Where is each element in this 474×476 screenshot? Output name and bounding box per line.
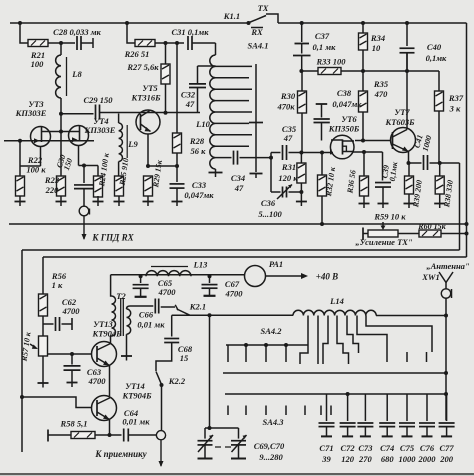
svg-text:„Антенна": „Антенна" bbox=[426, 261, 470, 271]
resistor R32 bbox=[318, 153, 327, 225]
label XW1 bbox=[421, 272, 439, 282]
wire VT14 emitter bbox=[108, 420, 112, 438]
svg-text:R28: R28 bbox=[189, 136, 205, 146]
arrow to receiver bbox=[159, 440, 164, 467]
label R24 bbox=[97, 152, 111, 188]
label R30 bbox=[276, 91, 295, 112]
svg-text:L9: L9 bbox=[127, 139, 138, 149]
wire antenna rail bbox=[0, 298, 474, 475]
wire right rail bbox=[466, 23, 468, 257]
capacitor C67 bbox=[202, 276, 218, 296]
svg-text:С77: С77 bbox=[440, 443, 455, 453]
capacitor C29 bbox=[96, 105, 100, 120]
svg-text:С29 150: С29 150 bbox=[83, 95, 113, 105]
svg-text:4700: 4700 bbox=[62, 306, 81, 316]
resistor R27 bbox=[161, 43, 170, 113]
label R35 bbox=[373, 79, 389, 99]
transistor VT3 bbox=[31, 127, 51, 167]
resistor R22 bbox=[16, 139, 25, 196]
capacitor C34 bbox=[216, 151, 272, 165]
capacitor C36 variable bbox=[271, 185, 301, 200]
label R56 bbox=[51, 271, 67, 290]
wire R21 to C28 bbox=[48, 41, 75, 45]
svg-text:+40 В: +40 В bbox=[316, 272, 338, 282]
svg-text:С36: С36 bbox=[261, 198, 276, 208]
ground R25 bbox=[114, 196, 125, 206]
wire VT14 base bbox=[20, 395, 91, 408]
svg-text:2000: 2000 bbox=[418, 454, 437, 464]
svg-text:SА4.2: SА4.2 bbox=[260, 326, 282, 336]
svg-text:С34: С34 bbox=[231, 173, 245, 183]
wire bias row bbox=[299, 69, 439, 73]
capacitor С77 bbox=[439, 394, 455, 436]
svg-text:С75: С75 bbox=[400, 443, 415, 453]
capacitor С75 bbox=[399, 394, 415, 436]
label R38 bbox=[442, 179, 455, 208]
label PA1 bbox=[269, 259, 283, 269]
resistor R39 bbox=[405, 163, 414, 204]
wire drain link bbox=[42, 114, 80, 176]
label VT3 bbox=[15, 99, 47, 118]
svg-text:1 к: 1 к bbox=[52, 280, 63, 290]
resistor R59 trimmer bbox=[363, 222, 398, 240]
svg-text:R60 15к: R60 15к bbox=[417, 222, 446, 231]
resistor R25 bbox=[115, 162, 124, 197]
label C67 bbox=[225, 279, 244, 299]
svg-text:К приемнику: К приемнику bbox=[94, 449, 147, 459]
label C40 bbox=[426, 42, 447, 63]
transistor VT6 bbox=[330, 135, 354, 159]
resistor R35 bbox=[359, 71, 368, 141]
label SA4.3 bbox=[262, 417, 284, 427]
label L10 bbox=[195, 119, 210, 129]
label SA4.2 bbox=[260, 326, 282, 336]
transistor VT5 bbox=[136, 110, 160, 166]
switch SA4.3 contacts bbox=[228, 406, 331, 416]
wire VT3 source bbox=[20, 165, 41, 167]
svg-text:120: 120 bbox=[341, 454, 355, 464]
svg-text:R37: R37 bbox=[448, 93, 464, 103]
wire lower bus1 bbox=[223, 371, 448, 375]
svg-text:С76: С76 bbox=[420, 443, 435, 453]
svg-text:0,1 мк: 0,1 мк bbox=[313, 42, 337, 52]
svg-text:R31: R31 bbox=[281, 162, 296, 172]
wire lower bus2 bbox=[225, 392, 448, 396]
capacitor C28 bbox=[77, 36, 81, 50]
ground R38 bbox=[434, 204, 445, 209]
capacitor C33 bbox=[170, 166, 185, 202]
wire C29 to VT5 bbox=[100, 111, 201, 115]
wire top supply rail bbox=[10, 21, 467, 25]
capacitor C41 bbox=[424, 155, 428, 170]
label R27 bbox=[126, 62, 159, 72]
label VT7 bbox=[384, 107, 415, 127]
wire plus40 branch bbox=[110, 275, 113, 296]
svg-text:С33: С33 bbox=[192, 180, 207, 190]
svg-text:4700: 4700 bbox=[88, 376, 107, 386]
wire TX out bbox=[459, 163, 461, 250]
inductor L8 bbox=[56, 43, 67, 98]
resistor R38 bbox=[435, 163, 444, 204]
wire R26 to C31 bbox=[155, 41, 184, 45]
switch SA4.1 rotor bbox=[249, 64, 263, 172]
ground R39 bbox=[404, 204, 415, 209]
label K2.1 bbox=[189, 302, 206, 312]
wire VT13 collector bbox=[111, 336, 112, 344]
svg-text:680: 680 bbox=[381, 454, 395, 464]
resistor R26 bbox=[135, 40, 155, 47]
svg-text:R34: R34 bbox=[370, 33, 385, 43]
wire VT7 emitter bbox=[407, 152, 411, 166]
svg-text:С32: С32 bbox=[181, 90, 196, 100]
label R25 bbox=[118, 157, 131, 186]
svg-text:С38: С38 bbox=[337, 88, 352, 98]
label C65 bbox=[158, 278, 177, 297]
label R39 bbox=[411, 179, 424, 208]
svg-text:УТ14: УТ14 bbox=[125, 381, 145, 391]
capacitor C30 bbox=[74, 166, 94, 207]
svg-text:270: 270 bbox=[358, 454, 373, 464]
svg-text:3 к: 3 к bbox=[449, 104, 461, 114]
transistor VT14 bbox=[92, 396, 117, 421]
svg-text:Т2: Т2 bbox=[116, 291, 126, 301]
label k priemniku bbox=[94, 449, 147, 459]
svg-text:470к: 470к bbox=[276, 102, 295, 112]
label antenna bbox=[426, 261, 470, 271]
resistor R30 bbox=[298, 71, 307, 153]
wire emitter row bbox=[146, 164, 179, 168]
label C32 bbox=[181, 90, 196, 110]
svg-text:L8: L8 bbox=[71, 69, 82, 79]
ground T2 bbox=[121, 356, 132, 361]
capacitor C31 bbox=[188, 36, 192, 50]
svg-text:С67: С67 bbox=[225, 279, 240, 289]
inductor L10 bbox=[210, 43, 216, 169]
label R60 bbox=[417, 222, 446, 231]
label VT4 bbox=[84, 116, 116, 135]
antenna XW1 bbox=[439, 272, 453, 289]
label R36 bbox=[345, 169, 357, 194]
label R26 bbox=[124, 49, 150, 59]
inductor L13 bbox=[146, 267, 191, 277]
arrow to GPD bbox=[82, 216, 87, 240]
wire L14 taps bbox=[300, 316, 432, 365]
label plus40 bbox=[316, 272, 338, 282]
svg-text:С72: С72 bbox=[341, 443, 356, 453]
svg-text:L10: L10 bbox=[195, 119, 210, 129]
ground R36 bbox=[359, 204, 370, 209]
inductor L14 bbox=[293, 310, 376, 315]
wire plus40 bbox=[111, 274, 245, 278]
svg-text:ТХ: ТХ bbox=[258, 3, 269, 13]
label C64 bbox=[122, 408, 150, 427]
label L14 bbox=[329, 296, 344, 306]
svg-text:47: 47 bbox=[283, 133, 293, 143]
label R58 bbox=[60, 419, 88, 429]
label C68 bbox=[178, 344, 193, 363]
ground R24 bbox=[93, 196, 104, 206]
label R33 bbox=[315, 57, 346, 67]
label R37 bbox=[448, 93, 464, 114]
svg-text:КП303Е: КП303Е bbox=[84, 125, 116, 135]
svg-text:КТ316Б: КТ316Б bbox=[130, 93, 161, 103]
label C38 bbox=[332, 88, 362, 109]
resistor R29 bbox=[144, 176, 153, 196]
label K1.1 bbox=[223, 11, 240, 21]
connector XW1 bbox=[441, 289, 451, 298]
resistor R21 bbox=[28, 40, 48, 47]
label R28 bbox=[189, 136, 206, 156]
label TX bbox=[258, 3, 269, 13]
label С72 bbox=[341, 443, 356, 464]
wire R60 out bbox=[43, 232, 469, 258]
ground L10 bbox=[209, 169, 223, 177]
label R31 bbox=[278, 162, 298, 183]
svg-text:220: 220 bbox=[45, 185, 60, 195]
capacitor C69 bbox=[198, 428, 214, 459]
svg-text:10: 10 bbox=[372, 43, 381, 53]
svg-text:РА1: РА1 bbox=[269, 259, 283, 269]
svg-text:0,047мк: 0,047мк bbox=[184, 190, 214, 200]
label R57 bbox=[19, 331, 32, 363]
terminal K2.2 out bbox=[156, 431, 165, 440]
capacitor C32 bbox=[189, 66, 216, 113]
ground R31 bbox=[296, 202, 307, 207]
svg-text:R26 51: R26 51 bbox=[124, 49, 150, 59]
svg-text:ХW1: ХW1 bbox=[421, 272, 439, 282]
resistor R28 bbox=[173, 43, 182, 166]
svg-text:470: 470 bbox=[374, 89, 389, 99]
arrow plus40 bbox=[266, 273, 309, 279]
capacitor C38 bbox=[314, 104, 330, 141]
wire C35 node bbox=[269, 153, 273, 193]
svg-text:С66: С66 bbox=[139, 310, 154, 320]
svg-text:КТ603Б: КТ603Б bbox=[384, 117, 415, 127]
wire VT6 source bbox=[352, 150, 383, 154]
svg-text:R22: R22 bbox=[27, 155, 43, 165]
wire L8 to C29 bbox=[59, 98, 94, 116]
capacitor C65 bbox=[133, 276, 149, 297]
resistor R33 bbox=[318, 68, 341, 75]
svg-text:С69,С70: С69,С70 bbox=[254, 441, 285, 451]
svg-text:0,047мк: 0,047мк bbox=[332, 99, 362, 109]
label C39 bbox=[380, 160, 399, 182]
svg-text:100: 100 bbox=[31, 59, 45, 69]
transistor VT13 bbox=[92, 342, 117, 367]
capacitor C66 bbox=[130, 299, 175, 314]
label C63 bbox=[87, 367, 106, 386]
label T2 bbox=[116, 291, 126, 301]
label С74 bbox=[380, 443, 394, 464]
svg-text:УТ6: УТ6 bbox=[341, 114, 357, 124]
ground C63 bbox=[67, 383, 78, 388]
wire VT6 drain bbox=[355, 139, 391, 143]
svg-text:К ГПД RX: К ГПД RX bbox=[91, 233, 134, 243]
label C35 bbox=[282, 124, 297, 143]
svg-text:5...100: 5...100 bbox=[258, 209, 282, 219]
wire VT13 base bbox=[48, 352, 92, 356]
label K2.2 bbox=[168, 376, 186, 386]
svg-text:К2.1: К2.1 bbox=[189, 302, 206, 312]
label С73 bbox=[358, 443, 373, 464]
label C31 bbox=[171, 27, 209, 37]
ground SA4.1 bbox=[250, 174, 263, 179]
resistor R23 bbox=[57, 176, 66, 196]
svg-text:КП303Е: КП303Е bbox=[15, 108, 47, 118]
svg-text:КТ904Б: КТ904Б bbox=[121, 391, 152, 401]
svg-text:С31 0,1мк: С31 0,1мк bbox=[171, 27, 209, 37]
svg-text:С71: С71 bbox=[319, 443, 333, 453]
capacitor С76 bbox=[419, 394, 435, 436]
capacitor С74 bbox=[379, 394, 395, 436]
switch K1.1 bbox=[247, 14, 279, 28]
ground C39 bbox=[378, 204, 389, 209]
svg-text:R33 100: R33 100 bbox=[315, 57, 346, 67]
svg-text:С28 0,033 мк: С28 0,033 мк bbox=[53, 27, 101, 37]
label C37 bbox=[313, 31, 337, 52]
wire K2.1 out bbox=[172, 313, 293, 317]
svg-text:R23: R23 bbox=[44, 175, 60, 185]
svg-text:УТ7: УТ7 bbox=[394, 107, 410, 117]
resistor R34 bbox=[359, 23, 368, 71]
svg-text:0,1мк: 0,1мк bbox=[426, 53, 447, 63]
wire gate line bbox=[4, 140, 94, 142]
svg-text:R30: R30 bbox=[280, 91, 296, 101]
capacitor С73 bbox=[357, 394, 373, 436]
label VT5 bbox=[130, 83, 161, 103]
label C41 bbox=[413, 134, 434, 153]
svg-text:39: 39 bbox=[321, 454, 331, 464]
capacitor C62 bbox=[43, 316, 72, 331]
ground C33 bbox=[172, 202, 183, 207]
label C33 bbox=[184, 180, 214, 200]
inductor L9 bbox=[119, 114, 128, 162]
wire bias feed bbox=[42, 257, 44, 294]
label C29 bbox=[83, 95, 113, 105]
label L8 bbox=[71, 69, 82, 79]
label C36 bbox=[258, 198, 282, 219]
wire L10 taps bbox=[216, 66, 253, 146]
label С76 bbox=[418, 443, 437, 464]
ground R22 bbox=[15, 196, 26, 206]
label C30 bbox=[55, 153, 74, 171]
svg-text:УТ5: УТ5 bbox=[142, 83, 158, 93]
svg-text:0,01 мк: 0,01 мк bbox=[122, 417, 150, 427]
meter PA1 bbox=[245, 266, 266, 287]
svg-text:1000: 1000 bbox=[399, 454, 417, 464]
label С71 bbox=[319, 443, 333, 464]
resistor R37 bbox=[435, 71, 444, 163]
wire C28 stub bbox=[81, 38, 93, 48]
svg-text:К1.1: К1.1 bbox=[223, 11, 240, 21]
capacitor C68 bbox=[156, 315, 179, 371]
wire L14 out bbox=[376, 314, 448, 318]
svg-text:4700: 4700 bbox=[158, 287, 177, 297]
svg-text:„Усиление ТХ": „Усиление ТХ" bbox=[355, 237, 413, 247]
wire K2.1 down bbox=[208, 315, 212, 430]
capacitor С72 bbox=[340, 394, 356, 436]
label K GPD RX bbox=[91, 233, 134, 243]
label usilenie bbox=[355, 237, 413, 247]
wire emitter out bbox=[409, 161, 460, 165]
resistor R58 bbox=[48, 430, 122, 442]
capacitor C39 bbox=[375, 152, 391, 204]
svg-text:КТ904Б: КТ904Б bbox=[91, 329, 122, 339]
svg-text:КП350Б: КП350Б bbox=[328, 124, 360, 134]
transformer T2 bbox=[112, 296, 131, 356]
label VT13 bbox=[91, 319, 122, 339]
svg-text:RХ: RХ bbox=[250, 27, 263, 37]
label R59 bbox=[373, 212, 406, 222]
wire frame outer bbox=[22, 250, 460, 452]
wire gate1 bbox=[301, 151, 333, 155]
label R23 bbox=[44, 175, 60, 195]
capacitor C37 bbox=[293, 23, 311, 71]
label VT6 bbox=[328, 114, 360, 134]
transistor VT7 bbox=[391, 128, 416, 153]
capacitor C40 bbox=[400, 23, 415, 71]
label R29 bbox=[151, 159, 164, 189]
label R32 bbox=[324, 166, 337, 198]
capacitor C35 bbox=[271, 145, 301, 160]
wire VT13 emitter bbox=[109, 366, 111, 397]
svg-text:SА4.3: SА4.3 bbox=[262, 417, 284, 427]
wire to R26 bbox=[127, 23, 135, 43]
resistor R36 bbox=[360, 152, 369, 204]
svg-text:200: 200 bbox=[439, 454, 454, 464]
svg-text:С73: С73 bbox=[358, 443, 373, 453]
label С77 bbox=[439, 443, 454, 464]
label C28 bbox=[53, 27, 101, 37]
wire VT7 collector bbox=[406, 53, 408, 130]
label C66 bbox=[137, 310, 165, 330]
resistor R56 bbox=[39, 294, 48, 316]
capacitor С71 bbox=[319, 394, 335, 436]
switch K2.1 bbox=[175, 305, 190, 315]
svg-text:К2.2: К2.2 bbox=[168, 376, 186, 386]
svg-text:0,01 мк: 0,01 мк bbox=[137, 320, 165, 330]
switch SA4.2 bbox=[226, 343, 308, 362]
label SA4.1 bbox=[247, 41, 268, 51]
label С75 bbox=[399, 443, 417, 464]
svg-text:R59 10 к: R59 10 к bbox=[373, 212, 406, 222]
label R22 bbox=[26, 155, 46, 175]
svg-text:9...280: 9...280 bbox=[259, 452, 283, 462]
svg-text:47: 47 bbox=[185, 99, 195, 109]
resistor R31 bbox=[297, 151, 306, 202]
label RX bbox=[250, 27, 263, 37]
node a terminal bbox=[79, 206, 89, 216]
svg-text:100 к: 100 к bbox=[26, 165, 46, 175]
label VT14 bbox=[121, 381, 152, 401]
ground R29 bbox=[143, 196, 154, 206]
wire R59 to R60 bbox=[398, 233, 419, 235]
resistor R24 bbox=[94, 166, 103, 198]
svg-text:4700: 4700 bbox=[225, 289, 244, 299]
capacitor C70 bbox=[205, 428, 247, 459]
svg-text:R58 5,1: R58 5,1 bbox=[60, 419, 88, 429]
switch K2.2 bbox=[156, 372, 164, 431]
svg-text:SА4.1: SА4.1 bbox=[247, 41, 268, 51]
capacitor C64 bbox=[124, 429, 157, 442]
label R34 bbox=[370, 33, 385, 53]
label R21 bbox=[30, 50, 45, 69]
wire supply bus bbox=[9, 222, 469, 226]
label L13 bbox=[193, 260, 208, 270]
label C62 bbox=[62, 297, 81, 316]
resistor R57 trimmer bbox=[30, 324, 49, 388]
svg-text:С37: С37 bbox=[315, 31, 330, 41]
